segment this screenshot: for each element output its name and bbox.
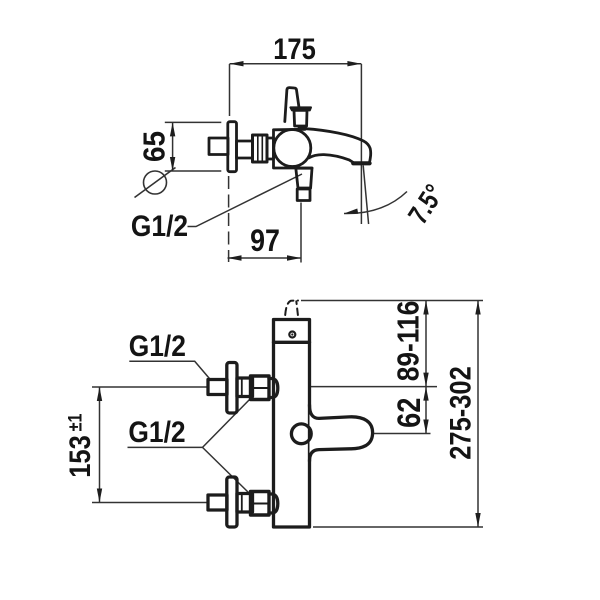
svg-text:97: 97: [250, 224, 280, 258]
svg-text:G1/2: G1/2: [128, 415, 185, 449]
svg-text:65: 65: [137, 131, 172, 162]
svg-text:G1/2: G1/2: [131, 209, 188, 243]
svg-text:89-116: 89-116: [392, 301, 426, 382]
svg-text:G1/2: G1/2: [129, 328, 186, 362]
svg-text:153: 153: [63, 435, 96, 478]
svg-text:62: 62: [392, 398, 428, 428]
svg-text:275-302: 275-302: [444, 366, 477, 460]
svg-text:175: 175: [273, 32, 316, 65]
svg-text:±1: ±1: [64, 413, 86, 431]
